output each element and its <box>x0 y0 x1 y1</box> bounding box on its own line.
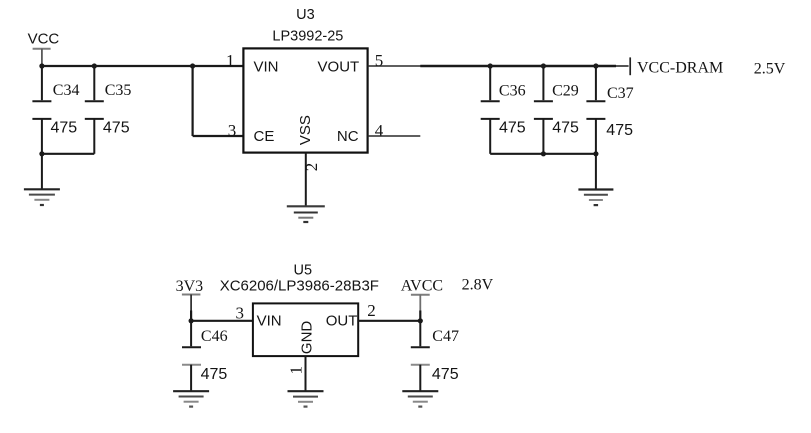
wire C34/C35 bottoms to ground <box>42 153 94 155</box>
svg-text:XC6206/LP3986-28B3F: XC6206/LP3986-28B3F <box>220 278 379 295</box>
wire NC stub <box>368 135 421 137</box>
svg-text:VIN: VIN <box>257 313 282 330</box>
svg-text:475: 475 <box>552 120 579 137</box>
svg-text:VIN: VIN <box>254 58 279 75</box>
svg-text:VCC-DRAM: VCC-DRAM <box>637 60 723 77</box>
IC U3 body <box>243 48 367 152</box>
svg-text:3: 3 <box>236 304 245 323</box>
svg-text:C29: C29 <box>552 82 579 99</box>
power flag VCC <box>28 31 60 66</box>
junction node at CE branch <box>190 63 195 68</box>
junction node at C29 <box>541 63 546 68</box>
svg-text:1: 1 <box>287 366 306 375</box>
svg-text:C47: C47 <box>432 328 459 345</box>
svg-text:5: 5 <box>375 51 384 70</box>
svg-text:LP3992-25: LP3992-25 <box>272 29 343 45</box>
ground (under C47) <box>402 391 438 406</box>
wire VCC net to U3 pin1 <box>42 65 244 67</box>
svg-text:2.5V: 2.5V <box>754 60 786 77</box>
svg-text:NC: NC <box>337 128 359 145</box>
svg-text:C35: C35 <box>105 82 132 99</box>
svg-text:CE: CE <box>254 128 275 145</box>
svg-text:475: 475 <box>51 119 78 136</box>
svg-text:4: 4 <box>375 121 384 140</box>
svg-text:475: 475 <box>432 366 459 383</box>
svg-text:C37: C37 <box>607 85 634 102</box>
power flag 3V3 <box>176 278 204 321</box>
svg-text:1: 1 <box>226 51 235 70</box>
junction node at 3V3/C46 <box>189 318 194 323</box>
junction node at VCC/C34 <box>39 63 44 68</box>
svg-text:2: 2 <box>302 163 321 172</box>
svg-text:GND: GND <box>299 321 316 355</box>
junction node at C37 <box>593 63 598 68</box>
ground (right, under C37) <box>578 154 613 205</box>
wire C36/C29/C37 bottoms <box>490 153 596 155</box>
junction node at C34 bottom <box>39 151 44 156</box>
port tick VCC-DRAM <box>629 57 631 75</box>
ground (left, under C34/C35) <box>24 154 60 205</box>
svg-text:475: 475 <box>201 366 228 383</box>
wire 3V3 to U5 pin3 <box>191 320 253 322</box>
wire CE branch to U3 pin3 <box>193 135 244 137</box>
capacitor C46 <box>182 321 201 391</box>
capacitor C29 <box>534 66 553 154</box>
svg-text:475: 475 <box>103 119 130 136</box>
ground (under U5 GND) <box>288 391 324 406</box>
svg-text:3V3: 3V3 <box>176 278 204 295</box>
svg-text:VCC: VCC <box>28 31 60 48</box>
svg-text:VOUT: VOUT <box>318 58 360 75</box>
capacitor C37 <box>586 66 605 154</box>
svg-text:U5: U5 <box>294 262 313 278</box>
svg-text:2: 2 <box>367 301 376 320</box>
junction node at C37 bottom <box>593 151 598 156</box>
svg-text:AVCC: AVCC <box>401 277 443 294</box>
wire VOUT to VCC-DRAM port <box>368 65 421 67</box>
svg-text:C36: C36 <box>499 82 526 99</box>
capacitor C47 <box>411 321 430 391</box>
junction node at AVCC/C47 <box>418 318 423 323</box>
wire CE branch vertical <box>192 66 194 136</box>
power flag AVCC <box>401 277 443 321</box>
wire U5 pin1 (GND) to ground <box>305 356 307 391</box>
capacitor C34 <box>32 66 51 154</box>
svg-text:U3: U3 <box>296 7 315 23</box>
ground (under C46) <box>173 391 209 406</box>
ground (under U3 VSS) <box>287 206 325 222</box>
svg-text:475: 475 <box>606 122 633 139</box>
svg-text:C34: C34 <box>53 82 80 99</box>
svg-text:VSS: VSS <box>297 115 314 145</box>
wire U3 pin2 (VSS) to ground <box>305 153 307 207</box>
wire U5 OUT to AVCC <box>358 320 420 322</box>
junction node at C29 bottom <box>541 151 546 156</box>
IC U5 body <box>253 303 358 356</box>
svg-text:475: 475 <box>499 120 526 137</box>
junction node at C36 <box>488 63 493 68</box>
svg-text:C46: C46 <box>201 328 228 345</box>
svg-text:3: 3 <box>228 121 237 140</box>
svg-text:OUT: OUT <box>326 313 358 330</box>
capacitor C35 <box>85 66 104 154</box>
junction node at C35 <box>92 63 97 68</box>
capacitor C36 <box>481 66 500 154</box>
svg-text:2.8V: 2.8V <box>462 277 494 294</box>
